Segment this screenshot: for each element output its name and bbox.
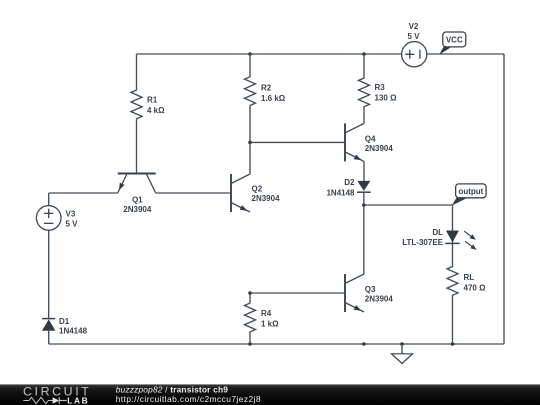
voltage source V2	[402, 22, 427, 67]
resistor R4	[245, 293, 256, 344]
transistor Q2	[231, 174, 280, 212]
svg-text:1N4148: 1N4148	[326, 188, 355, 197]
svg-text:LTL-307EE: LTL-307EE	[402, 238, 443, 247]
resistor RL	[447, 205, 458, 344]
wire output node	[364, 204, 453, 206]
footer bar	[0, 384, 540, 405]
LED DL	[402, 228, 476, 250]
svg-text:buzzzpop82 / transistor ch9: buzzzpop82 / transistor ch9	[116, 385, 229, 395]
svg-text:RL: RL	[464, 273, 475, 282]
svg-text:R3: R3	[375, 83, 386, 92]
svg-text:R4: R4	[261, 309, 272, 318]
svg-text:5 V: 5 V	[66, 220, 79, 229]
node junction bottom rail at ground	[400, 342, 404, 346]
svg-text:V2: V2	[409, 22, 419, 31]
svg-text:VCC: VCC	[446, 35, 463, 44]
svg-text:130 Ω: 130 Ω	[375, 94, 398, 103]
voltage source V3	[36, 193, 78, 318]
net flag output	[452, 184, 486, 206]
wire Q4 base from R2 column	[250, 141, 345, 143]
ground	[392, 344, 413, 364]
svg-text:DL: DL	[432, 228, 443, 237]
svg-text:Q4: Q4	[365, 134, 376, 143]
svg-text:R1: R1	[147, 96, 158, 105]
svg-text:2N3904: 2N3904	[365, 144, 394, 153]
node junction bottom rail at Q3 emitter	[362, 342, 366, 346]
wire V3 to Q1 emitter	[49, 192, 118, 194]
node junction D2 / output	[362, 203, 366, 207]
node junction top rail at R2	[248, 52, 252, 56]
node junction at R4/Q3 base	[248, 291, 252, 295]
diode D2	[326, 161, 370, 274]
diode D1	[42, 317, 88, 344]
svg-text:5 V: 5 V	[407, 32, 420, 41]
wire bottom rail	[49, 343, 504, 345]
svg-text:V3: V3	[66, 209, 76, 218]
footer logo resistor-diode icon	[23, 397, 52, 403]
node junction at R2/Q4 base	[248, 141, 252, 145]
wire top rail left segment	[137, 53, 402, 55]
transistor Q4	[345, 123, 393, 161]
svg-text:LAB: LAB	[67, 395, 89, 405]
transistor Q1	[118, 174, 156, 214]
svg-text:D1: D1	[59, 317, 70, 326]
svg-text:output: output	[458, 187, 483, 196]
svg-text:470 Ω: 470 Ω	[464, 284, 487, 293]
svg-text:1.6 kΩ: 1.6 kΩ	[261, 94, 286, 103]
svg-text:1N4148: 1N4148	[59, 327, 88, 336]
svg-text:R2: R2	[261, 83, 272, 92]
wire right edge vertical	[503, 54, 505, 344]
node junction bottom rail at RL	[451, 342, 455, 346]
wire Q3 base from R4 column	[250, 292, 345, 294]
svg-text:Q2: Q2	[252, 184, 263, 193]
svg-text:http://circuitlab.com/c2mccu7j: http://circuitlab.com/c2mccu7jez2j8	[116, 394, 261, 404]
svg-text:2N3904: 2N3904	[252, 194, 281, 203]
svg-text:D2: D2	[344, 178, 355, 187]
svg-text:2N3904: 2N3904	[365, 294, 394, 303]
resistor R3	[359, 54, 370, 123]
svg-text:Q1: Q1	[132, 195, 143, 204]
svg-text:Q3: Q3	[365, 285, 376, 294]
svg-text:4 kΩ: 4 kΩ	[147, 106, 165, 115]
node junction top rail at R3	[362, 52, 366, 56]
svg-text:1 kΩ: 1 kΩ	[261, 320, 279, 329]
svg-text:2N3904: 2N3904	[123, 205, 152, 214]
net flag VCC	[439, 32, 466, 55]
resistor R2	[245, 54, 256, 174]
node junction bottom rail at R4	[248, 342, 252, 346]
transistor Q3	[345, 274, 393, 312]
wire top rail right segment	[427, 53, 504, 55]
wire Q1 collector to Q2 base	[156, 192, 231, 194]
resistor R1	[131, 54, 142, 174]
